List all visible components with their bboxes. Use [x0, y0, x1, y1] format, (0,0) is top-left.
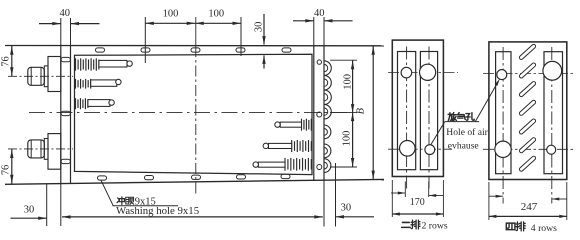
- svg-text:247: 247: [521, 201, 538, 213]
- svg-text:Hole of air: Hole of air: [446, 127, 488, 138]
- svg-text:76: 76: [1, 56, 12, 67]
- svg-text:40: 40: [314, 8, 325, 19]
- svg-text:100: 100: [208, 8, 224, 19]
- svg-text:evhause: evhause: [448, 141, 479, 152]
- svg-text:Washing hole 9x15: Washing hole 9x15: [116, 205, 199, 217]
- svg-text:B: B: [355, 107, 366, 114]
- svg-text:2 rows: 2 rows: [422, 221, 448, 232]
- svg-text:76: 76: [1, 165, 12, 176]
- svg-text:100: 100: [342, 131, 353, 147]
- svg-text:30: 30: [24, 204, 35, 215]
- svg-text:100: 100: [342, 74, 353, 90]
- svg-text:30: 30: [341, 203, 352, 214]
- svg-text:30: 30: [253, 22, 264, 33]
- svg-text:170: 170: [410, 197, 425, 208]
- svg-text:4 rows: 4 rows: [531, 223, 557, 234]
- svg-text:100: 100: [163, 8, 179, 19]
- svg-text:40: 40: [60, 8, 71, 19]
